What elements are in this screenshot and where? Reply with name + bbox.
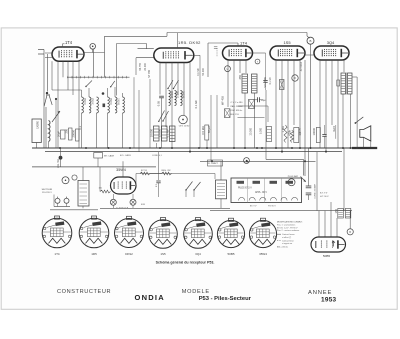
wire T2a to bus (244, 93, 246, 148)
node R circled between V4 V5 (292, 75, 298, 81)
wire CADRE to bus (36, 143, 38, 149)
stub wires into V2 left (138, 48, 154, 50)
dropper resistor R22 (162, 172, 172, 175)
wire from V2 top through label (177, 33, 179, 48)
capacitor across primary (337, 80, 340, 86)
svg-text:MODELE: MODELE (182, 289, 210, 295)
wire drop x337 (336, 218, 338, 237)
svg-text:1R5: 1R5 (91, 252, 97, 256)
wire V1 pin2 (62, 61, 64, 77)
CADRE winding coil (49, 121, 51, 142)
wire input down left (43, 50, 45, 149)
wire input2 down (47, 54, 49, 92)
svg-text:45. 1WATT: 45. 1WATT (208, 162, 219, 165)
wire V2 pin5 (183, 63, 185, 116)
svg-text:VOL 500k: VOL 500k (264, 76, 267, 87)
svg-text:1T4: 1T4 (65, 40, 73, 45)
wire L3a to bus (107, 113, 109, 148)
svg-text:B: B (310, 39, 312, 43)
switch box INT (94, 153, 103, 159)
svg-text:93.755: 93.755 (139, 62, 142, 70)
svg-text:3Q4: 3Q4 (327, 40, 335, 45)
wire C20 chain (308, 148, 310, 186)
wire L1a up (81, 90, 83, 97)
arrow inside pill socket (332, 241, 335, 247)
coil L4b winding (123, 97, 125, 113)
wave switch arrow (52, 111, 60, 122)
electrolytic C20 (306, 185, 312, 187)
svg-text:Pos. 2 : secteur redresse: Pos. 2 : secteur redresse (277, 229, 300, 232)
bottom distribution rail (210, 210, 352, 212)
wire V1 pin5 (78, 61, 80, 148)
coil L1a winding (82, 97, 84, 113)
tube V2 1R5 DK92 (converter) (154, 48, 194, 63)
bottom rail left segment (50, 209, 98, 211)
meter V circle (288, 179, 295, 186)
socket diagram 1S5 (149, 218, 178, 249)
autotransformer AT box (78, 181, 89, 207)
wire V2 pin2 (165, 63, 167, 128)
wire V2 pin6 (189, 63, 191, 152)
wire V4 pin5 (299, 60, 301, 148)
svg-text:ONDIA: ONDIA (135, 293, 165, 302)
volume pot R12 (205, 125, 209, 140)
extra bus dots (198, 147, 200, 149)
wire V1 plate out (84, 52, 105, 54)
crystal X2 box (249, 100, 255, 109)
socket diagram DK92 (115, 216, 144, 247)
top wire y36 (105, 35, 168, 37)
wire TR down (220, 199, 222, 209)
annotation link wire 1 (238, 105, 269, 107)
lead bracket above V1 (62, 44, 64, 48)
pill socket 50B5 (311, 237, 346, 252)
wire L4b to bus (122, 113, 124, 148)
resistor stack R4 (175, 91, 177, 106)
wire node B2 (349, 211, 351, 229)
trimmer switch over L1 (86, 81, 92, 87)
wire V2 plate lead (194, 54, 200, 56)
pickup jack PU2 circle (72, 175, 77, 180)
iron core mark (103, 104, 106, 108)
svg-text:CET. 12 N2: CET. 12 N2 (179, 126, 190, 128)
svg-text:HT. 90 V: HT. 90 V (268, 206, 276, 208)
svg-text:4x15: 4x15 (332, 125, 336, 131)
battery cell separators (247, 178, 249, 203)
wire V2 pin3 (171, 63, 173, 149)
wire drop x319 (318, 211, 320, 237)
wire V3 pin1 (227, 60, 229, 107)
svg-text:10.000: 10.000 (150, 129, 154, 138)
wire L4 up to x116.5 (122, 93, 124, 97)
tube V1 1T4 (RF amp) (52, 47, 84, 61)
wire antenna drop down (93, 50, 95, 78)
pickup jack PU circle (62, 177, 69, 184)
svg-text:0.062: 0.062 (83, 97, 87, 104)
svg-text:1S5: 1S5 (160, 252, 166, 256)
junction dot left (46, 92, 48, 94)
wire x211 (210, 95, 212, 161)
dial lamp LP2 (130, 199, 136, 205)
svg-text:0,1 MF: 0,1 MF (269, 76, 272, 84)
wire cadre coil to bus (48, 142, 50, 148)
wire L3a up (107, 88, 109, 97)
annotation link wire 2 (238, 117, 265, 119)
wire TR to bus (220, 161, 222, 180)
svg-text:1T4: 1T4 (240, 40, 248, 45)
svg-text:5.000: 5.000 (260, 127, 263, 134)
legend MODIFICATIONS block (277, 221, 303, 249)
tube V4 1S5 (det/AF) (270, 46, 305, 60)
svg-text:0.1: 0.1 (78, 126, 82, 130)
wire AT up (82, 167, 84, 181)
socket diagram 50B5 (217, 218, 244, 247)
wire 35W4 top (122, 161, 124, 176)
mains transformer TR box (216, 180, 227, 199)
output transformer T3 primary (341, 73, 346, 94)
capacitor C8 beside T2 (263, 80, 267, 82)
svg-text:PILES 67,5 V: PILES 67,5 V (238, 187, 252, 189)
wire x139 (138, 90, 140, 152)
svg-text:1S5: 1S5 (283, 40, 291, 45)
svg-text:COND. 2x50MF: COND. 2x50MF (315, 183, 317, 199)
long right wire x305 (304, 60, 306, 176)
mains plug pins (55, 198, 60, 203)
svg-text:B.T. 9 V: B.T. 9 V (320, 193, 328, 195)
svg-text:35W4: 35W4 (259, 252, 267, 256)
electrolytic C21 (306, 192, 312, 194)
wire V2 pin4 (177, 63, 179, 96)
svg-text:BT1 fil. 1,4 V . HT 90 V: BT1 fil. 1,4 V . HT 90 V (277, 227, 298, 229)
svg-text:APPL. 90 V: APPL. 90 V (255, 191, 267, 194)
coil L1b winding (89, 97, 91, 113)
svg-text:827 Ω: 827 Ω (141, 170, 147, 172)
svg-text:ANNEE: ANNEE (308, 290, 332, 296)
wire V5 pin4 (337, 60, 339, 148)
svg-text:20000: 20000 (72, 130, 76, 138)
inner top wire y43.5 (117, 43, 147, 45)
switch S1b (49, 95, 52, 105)
IF transformer T2 coil b (252, 74, 258, 93)
wire loop over V3 (207, 43, 209, 77)
capacitor C5 under V2 (159, 95, 164, 97)
svg-text:50000: 50000 (183, 90, 186, 98)
speaker voice-coil lead (356, 77, 358, 148)
wire right riser x363 (363, 138, 365, 149)
wire x266 down (265, 90, 267, 159)
junction dots on buses (59, 147, 61, 149)
switch S2 osc (159, 111, 165, 122)
svg-text:10000: 10000 (177, 90, 180, 98)
wire LP1 leads (112, 194, 114, 199)
svg-text:P53 - Piles-Secteur: P53 - Piles-Secteur (199, 296, 252, 302)
speaker switch arm (355, 117, 363, 123)
capacitor C9 top (257, 97, 259, 102)
node U circled near V3 (225, 66, 231, 72)
svg-text:1953: 1953 (321, 297, 337, 304)
svg-text:3.062: 3.062 (91, 97, 95, 104)
svg-text:50pF: 50pF (261, 100, 266, 102)
wire V4 pin2 (281, 60, 283, 152)
crystal X1 (225, 109, 231, 118)
wire L3b up (114, 87, 116, 97)
svg-text:20000: 20000 (171, 90, 174, 98)
resistor stack R7 (162, 126, 168, 141)
wire T3 down left (342, 94, 344, 148)
svg-text:50pF: 50pF (57, 131, 61, 137)
wire L1a to bus (81, 113, 83, 148)
resistor stack R8 (170, 126, 176, 142)
resistor stack R5 (180, 91, 182, 106)
speaker LS1 cone (360, 126, 371, 141)
svg-text:P.LES BAT.: P.LES BAT. (288, 175, 299, 178)
antenna pickup node A1 (90, 44, 96, 50)
wire heater chain (136, 173, 215, 175)
svg-text:455: 455 (238, 74, 242, 79)
top feedback wire y32 (32, 32, 34, 34)
svg-text:50B5: 50B5 (227, 252, 234, 256)
svg-text:35W4: 35W4 (116, 168, 126, 172)
socket diagram 35W4 (249, 218, 276, 247)
svg-text:CH. 5H: CH. 5H (56, 159, 60, 168)
svg-text:H.T. 90 V: H.T. 90 V (320, 196, 329, 198)
transformer core line (346, 73, 348, 95)
component box K1 above pill (338, 209, 344, 219)
coil L3a winding (108, 97, 110, 113)
small box 45 ohm (208, 160, 223, 166)
wire V5 plate to transformer (343, 60, 345, 72)
capacitor C3 (69, 128, 73, 140)
small caps under V1 x60 (61, 130, 66, 139)
svg-text:0,1 MF: 0,1 MF (197, 68, 200, 76)
svg-text:0.05: 0.05 (157, 100, 161, 106)
svg-text:Pos. 1 : jeu batteries: Pos. 1 : jeu batteries (277, 224, 295, 227)
coupling capacitor C14 box (280, 80, 285, 90)
wire h y90 under V1 (52, 89, 82, 91)
svg-text:0.5 MΩ: 0.5 MΩ (201, 126, 205, 135)
svg-text:110-220 V: 110-220 V (42, 192, 52, 194)
wire V3 pin2 (233, 60, 235, 148)
oscillator pad circle M (179, 115, 188, 124)
tube V3 1T4 (IF amp) (223, 46, 253, 60)
battery block PILES (231, 178, 302, 203)
long right wire x310 (310, 62, 312, 148)
capacitor C10 block (294, 128, 299, 143)
dial lamp LP1 (110, 199, 116, 205)
svg-text:0.1 MF: 0.1 MF (194, 100, 198, 109)
wire pot to bus (206, 140, 208, 148)
wire V5 pin1 (319, 60, 321, 148)
svg-text:ECL. CADR.: ECL. CADR. (120, 154, 132, 157)
switch S2b osc (163, 111, 169, 121)
wire drop x331 (330, 202, 332, 237)
capacitor C1 small (214, 46, 218, 48)
choke CH dot (59, 156, 63, 160)
svg-text:B.067: B.067 (117, 97, 121, 104)
svg-text:MF 455: MF 455 (221, 96, 225, 106)
wire T3 down right (350, 94, 352, 148)
junction dot between groups (102, 92, 105, 95)
switch over R3 (168, 80, 173, 88)
svg-text:470k: 470k (288, 129, 292, 135)
wire R6 to bus (156, 143, 158, 148)
wire x217 mid (216, 95, 218, 148)
svg-text:50.000: 50.000 (202, 67, 205, 75)
svg-text:20.000: 20.000 (250, 127, 253, 135)
wire x200 (199, 55, 201, 148)
wire antenna to top bus (104, 36, 106, 77)
svg-text:200: 200 (65, 128, 69, 133)
wire x134 (133, 77, 135, 148)
svg-text:SECTEUR: SECTEUR (42, 189, 53, 191)
capacitor C11 block (316, 128, 320, 143)
aerial input terminals (38, 49, 44, 51)
circled node m (244, 158, 250, 164)
svg-text:Contact ferme: Contact ferme (282, 233, 295, 236)
coil L2b winding (97, 97, 99, 113)
wire V4 pin4 (293, 60, 295, 125)
svg-text:NT 765: NT 765 (148, 69, 151, 77)
svg-text:Contact brise: Contact brise (282, 240, 295, 243)
wire x150 down (149, 79, 151, 148)
frame antenna CADRE box (32, 119, 41, 143)
trimmer switch over L3 (111, 81, 115, 87)
wire AT down (82, 206, 84, 208)
svg-text:CONSTRUCTEUR: CONSTRUCTEUR (57, 289, 111, 295)
bus y166.9 (32, 166, 156, 168)
wire V3 pin3 (239, 60, 241, 73)
capacitor C4 (76, 129, 80, 141)
stub wires into V1 left (45, 52, 53, 54)
wire V5 pin2 (325, 60, 327, 152)
svg-text:0.062: 0.062 (109, 97, 113, 104)
capacitor C12 (322, 134, 326, 136)
dropper resistor R21 (140, 172, 150, 175)
output transformer T3 secondary (348, 73, 353, 94)
cap C13 right (335, 125, 337, 139)
wire V4 pin1 (275, 60, 277, 148)
svg-text:si effort (*): si effort (*) (282, 236, 292, 239)
resistor R11 vertical (290, 130, 293, 143)
socket diagram 3Q4 (184, 218, 213, 249)
svg-text:PAD. 24.462: PAD. 24.462 (231, 105, 244, 108)
svg-text:BT. 9 V: BT. 9 V (250, 206, 257, 208)
main chassis bus y148 (32, 147, 360, 149)
battery cell caps (237, 181, 245, 184)
svg-text:150: 150 (334, 208, 338, 213)
component box K2 above pill (345, 209, 351, 219)
wire V4-V5 coupling (304, 54, 313, 56)
wire L1b up (88, 88, 90, 97)
wire V2 pin1 (159, 63, 161, 95)
IF transformer T2 coil a (242, 74, 248, 93)
wire V3 pin4 (245, 60, 247, 73)
dashed AVC stub (216, 48, 218, 57)
svg-text:5000: 5000 (297, 128, 301, 134)
wire T2b to bus (254, 93, 256, 148)
svg-text:RES. 2W: RES. 2W (162, 170, 172, 172)
svg-text:OSC 455 kc: OSC 455 kc (231, 110, 244, 112)
resistor stack R6 (154, 126, 160, 141)
svg-text:MODIFICATIONS COMMUT.: MODIFICATIONS COMMUT. (277, 221, 303, 224)
wire x158.5 down (158, 152, 160, 180)
switch over R4 (174, 80, 179, 88)
top wire riser x167 (166, 33, 168, 37)
resistor stack R3 (169, 91, 171, 106)
socket diagram 1T4 (42, 216, 72, 248)
node B2 circled (347, 229, 353, 235)
wire x56 down (55, 99, 57, 148)
wire x317 down (316, 152, 318, 211)
wire x116 from top to L4 (116, 44, 118, 96)
svg-text:DK92: DK92 (125, 252, 133, 256)
component block x266 (267, 127, 272, 142)
wire feed to battery with arrow (266, 158, 304, 160)
svg-text:0.1 MF: 0.1 MF (166, 129, 170, 138)
svg-text:AM = 455 kc: AM = 455 kc (277, 245, 288, 248)
svg-text:10000: 10000 (312, 128, 316, 136)
wire drop x325 (324, 211, 326, 237)
resistor R10 vertical (284, 125, 287, 143)
wire V4 pin3 (287, 60, 289, 148)
svg-text:AT 9003: AT 9003 (300, 61, 303, 71)
switch S3 mains a (186, 182, 193, 191)
svg-text:20.000: 20.000 (144, 62, 147, 70)
svg-text:COND. 0,1: COND. 0,1 (152, 155, 163, 157)
svg-text:1R5. DK92: 1R5. DK92 (178, 40, 201, 45)
svg-text:50 µA: 50 µA (207, 126, 211, 133)
socket diagram 1R5 (79, 216, 109, 248)
node B HT circled (307, 37, 314, 44)
wire far right riser (370, 141, 372, 148)
svg-text:1 MΩ: 1 MΩ (281, 126, 285, 133)
wire V1 pin4 (72, 61, 74, 95)
screened lead with ticks y77 (67, 76, 130, 78)
bottom rail under chassis (100, 207, 230, 209)
node 7 circled right of V3 (255, 59, 260, 64)
rectifier tube V6 35W4 (111, 177, 137, 194)
wire node B down to V5 region (310, 44, 312, 62)
coil L3b winding (115, 97, 117, 113)
svg-text:Schéma général du récepteur P5: Schéma général du récepteur P53. (156, 261, 215, 265)
svg-text:CADRE: CADRE (37, 121, 40, 130)
bus y161.3 (200, 160, 316, 162)
wire heater to switches (214, 174, 216, 180)
svg-text:B.E. P.U.: B.E. P.U. (231, 114, 240, 116)
wire plug to secteur (53, 195, 55, 207)
svg-text:50B5: 50B5 (323, 254, 331, 258)
tube V5 3Q4 (output) (314, 46, 349, 60)
svg-text:C.V. 2 x 490: C.V. 2 x 490 (231, 102, 244, 104)
wire V3 plate to IF2 (253, 52, 266, 54)
wire V1 pin1 (57, 61, 59, 148)
svg-text:25.000: 25.000 (158, 129, 162, 138)
switch S1 wave-change (44, 95, 47, 106)
switch S3 mains b (194, 182, 201, 190)
wire choke down (60, 148, 62, 167)
thick bus segment right (352, 147, 377, 149)
svg-text:INT. CADR: INT. CADR (104, 155, 115, 158)
riser to node B (306, 33, 308, 37)
svg-text:1T4: 1T4 (54, 252, 60, 256)
wire V1 pin3 (67, 61, 69, 90)
junction dot x56 (55, 98, 57, 100)
svg-text:3Q4: 3Q4 (195, 252, 201, 256)
wire LP2 leads (132, 194, 134, 199)
battery bumps (239, 197, 245, 200)
wire L2b to bus (96, 113, 98, 148)
wire drop x344 (343, 148, 345, 211)
